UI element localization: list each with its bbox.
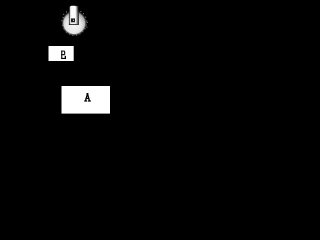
bar right outline	[77, 13, 80, 25]
sphere halo (dither rim)	[62, 11, 86, 35]
sphere body	[63, 12, 85, 34]
box B	[49, 46, 74, 61]
bar right shading	[76, 6, 77, 24]
bar left outline	[68, 6, 71, 25]
bar bottom outline	[69, 24, 79, 25]
bar body	[70, 6, 77, 24]
label B	[61, 51, 66, 59]
label A	[84, 93, 91, 102]
box A	[62, 86, 111, 114]
dark square in bar	[71, 18, 75, 22]
background	[0, 0, 137, 123]
sphere dither specks	[61, 11, 87, 36]
